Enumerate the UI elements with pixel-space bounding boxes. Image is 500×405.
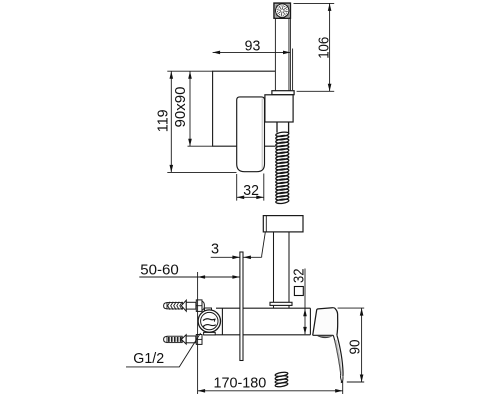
svg-text:93: 93 xyxy=(245,39,261,55)
dimension 170-180 line xyxy=(198,390,343,392)
svg-text:106: 106 xyxy=(317,37,333,59)
holder lower contour line xyxy=(262,232,266,257)
svg-text:170-180: 170-180 xyxy=(214,376,267,392)
valve cap top xyxy=(205,308,212,311)
dimension 90 lines xyxy=(338,308,365,382)
svg-text:119: 119 xyxy=(156,109,172,132)
thin wall plate (side view) xyxy=(240,252,243,361)
svg-text:90x90: 90x90 xyxy=(173,87,189,128)
sprayer handle xyxy=(275,18,290,91)
extension line left (wall face) xyxy=(197,272,199,394)
hose break symbol (side view) xyxy=(275,372,288,378)
svg-text:G1/2: G1/2 xyxy=(133,351,164,367)
svg-text:32: 32 xyxy=(243,183,259,199)
dimension square-32 text xyxy=(291,269,307,296)
shaft base collar xyxy=(270,302,292,305)
top hose fitting G1/2 xyxy=(164,303,168,309)
dimension 119 lines xyxy=(167,71,236,172)
dimension 106 lines xyxy=(294,3,335,91)
svg-text:32: 32 xyxy=(291,269,307,284)
wall plate 90x90 (front view) xyxy=(213,71,276,146)
dimension 93 line xyxy=(213,51,291,53)
svg-text:90: 90 xyxy=(348,340,364,355)
flexible shower hose coil xyxy=(276,131,290,137)
svg-text:3: 3 xyxy=(211,242,219,258)
mixer lever handle xyxy=(313,308,338,336)
valve cap bottom xyxy=(204,332,216,335)
dimension 32 lines (spout width) xyxy=(237,174,264,201)
holder block xyxy=(265,95,293,122)
hose connector tube xyxy=(277,122,289,132)
holder bracket (side view) xyxy=(263,216,303,232)
valve slots xyxy=(203,319,216,321)
spout body (rounded vertical block) xyxy=(237,97,265,172)
dimension 90x90 lines xyxy=(188,71,213,146)
dimension 50-60 line xyxy=(139,276,240,278)
holder collar flange xyxy=(272,91,294,95)
bottom hose fitting G1/2 xyxy=(164,337,168,343)
dimension square-32 leader xyxy=(304,269,306,335)
dimension 3 lines xyxy=(211,256,240,258)
square riser shaft xyxy=(274,232,290,308)
sprayer head with spray face xyxy=(274,3,290,18)
svg-text:50-60: 50-60 xyxy=(140,262,179,278)
valve body circle xyxy=(198,310,220,332)
mixer body edges xyxy=(204,308,311,335)
